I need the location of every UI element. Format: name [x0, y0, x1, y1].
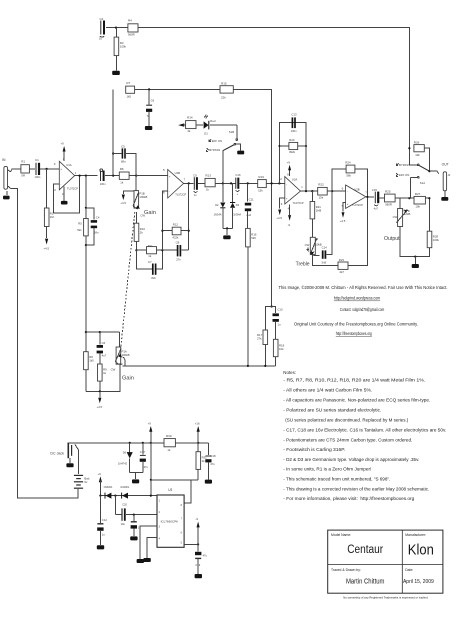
- svg-text:560R: 560R: [385, 203, 392, 207]
- ground at U1A pin4: [61, 187, 68, 205]
- svg-text:R20: R20: [289, 138, 295, 142]
- svg-text:http://freestompboxes.org: http://freestompboxes.org: [336, 331, 372, 336]
- svg-text:0R: 0R: [21, 173, 25, 177]
- svg-text:R4: R4: [128, 19, 132, 23]
- svg-text:+: +: [286, 197, 288, 201]
- svg-text:C13: C13: [291, 112, 297, 116]
- svg-text:392k: 392k: [289, 150, 296, 154]
- svg-text:OUT: OUT: [442, 162, 449, 166]
- svg-text:1N34A: 1N34A: [233, 212, 241, 216]
- svg-text:56k: 56k: [346, 174, 351, 178]
- title block: [328, 530, 443, 593]
- svg-text:+4.5: +4.5: [97, 405, 103, 409]
- svg-text:100n: 100n: [35, 175, 41, 179]
- diode D4 1N4001: [103, 485, 113, 498]
- capacitor C1: [35, 158, 41, 179]
- svg-text:+9: +9: [98, 472, 102, 476]
- wire: U2B output: [366, 196, 374, 198]
- svg-text:68n: 68n: [94, 231, 99, 235]
- capacitor C6b electrolytic: [97, 332, 107, 364]
- wire: gain network top: [86, 331, 120, 333]
- pot P1A (gain, lower gang): [111, 332, 130, 371]
- capacitor C16 tantalum: [235, 173, 241, 196]
- svg-text:C12: C12: [102, 518, 108, 522]
- capacitor C4: [86, 208, 100, 245]
- battery BT1: [74, 444, 90, 488]
- svg-text:TL072CP: TL072CP: [67, 187, 78, 191]
- wire: R15 to right loop down to C10: [233, 89, 271, 306]
- svg-text:C9: C9: [193, 174, 197, 178]
- svg-text:Treble: Treble: [296, 262, 310, 268]
- resistor R27: [409, 192, 430, 208]
- svg-text:1u: 1u: [277, 322, 281, 326]
- svg-text:R6: R6: [120, 167, 124, 171]
- svg-text:-: -: [169, 189, 170, 193]
- svg-text:47u: 47u: [144, 465, 149, 469]
- resistor R20: [289, 138, 298, 154]
- node: R15/C10 column crossing: [271, 182, 273, 184]
- svg-text:Output: Output: [384, 236, 400, 242]
- svg-text:27n: 27n: [176, 258, 181, 262]
- svg-text:100n: 100n: [291, 129, 297, 133]
- svg-text:+9: +9: [287, 161, 291, 165]
- resistor R7: [126, 81, 220, 98]
- node: R10/R11/C7: [135, 249, 137, 251]
- capacitor C3: [100, 169, 106, 186]
- wire: down to gain pot network: [85, 245, 87, 332]
- resistor R22: [318, 183, 346, 200]
- node: R5/C4 top: [85, 207, 87, 209]
- svg-text:DC Jack: DC Jack: [50, 452, 64, 456]
- wire: U3 pin3 stub: [140, 526, 157, 559]
- ground below DC jack: [66, 463, 73, 467]
- wire: U3 pin5 output: [184, 543, 198, 545]
- ground below output pot loop: [412, 264, 419, 268]
- svg-text:+4.5: +4.5: [340, 219, 346, 223]
- svg-text:U1B: U1B: [175, 171, 181, 175]
- capacitor C6: [146, 89, 155, 125]
- svg-text:- This drawing is a corrected: - This drawing is a corrected revision o…: [283, 486, 429, 491]
- svg-text:C6: C6: [102, 341, 106, 345]
- svg-text:R12: R12: [173, 223, 179, 227]
- ground below C18: [205, 480, 212, 484]
- svg-text:C16: C16: [235, 173, 241, 177]
- resistor R26: [414, 141, 430, 172]
- svg-text:10u: 10u: [121, 522, 126, 526]
- svg-text:C7: C7: [148, 260, 152, 264]
- wire: bias rail: [123, 365, 276, 367]
- wire: sleeve down left side to battery row: [10, 188, 78, 498]
- pot P1B (gain, upper gang): [133, 176, 147, 218]
- svg-text:C10: C10: [277, 307, 283, 311]
- svg-text:-9: -9: [195, 517, 198, 521]
- op-amp U2B: [342, 185, 368, 208]
- resistor R30: [164, 434, 208, 452]
- node: C10/R17 split: [271, 305, 273, 307]
- svg-text:TL072CP: TL072CP: [352, 203, 363, 207]
- svg-text:+4.5: +4.5: [120, 201, 126, 205]
- svg-text:IN: IN: [2, 158, 6, 162]
- svg-text:C14: C14: [322, 246, 328, 250]
- svg-text:R23: R23: [339, 258, 345, 262]
- svg-text:C20: C20: [122, 503, 127, 507]
- wire: C16 to R19: [239, 182, 257, 184]
- op-amp U2A: [280, 172, 304, 210]
- resistor R3: [114, 28, 126, 71]
- ground below output jack: [441, 197, 448, 201]
- svg-text:4u7: 4u7: [374, 206, 379, 210]
- wire: gang dashed link P1B to P1A: [121, 212, 135, 347]
- wire: C5 branch vertical: [112, 89, 114, 175]
- resistor R14: [186, 116, 203, 134]
- svg-text:R24: R24: [345, 160, 351, 164]
- wire: diode chain row: [100, 495, 157, 497]
- svg-text:No ownership of any Registered: No ownership of any Registered Trademark…: [343, 595, 428, 599]
- svg-text:C1: C1: [35, 158, 39, 162]
- capacitor C11: [245, 183, 254, 228]
- svg-text:BYPASS: BYPASS: [209, 148, 220, 152]
- wire: diode pair merge: [223, 227, 233, 229]
- svg-text:C5: C5: [121, 145, 125, 149]
- wire: C15 to R25: [379, 197, 384, 199]
- node: C11 tap: [247, 182, 249, 184]
- svg-text:10k: 10k: [279, 347, 284, 351]
- svg-text:- Potentiometers are CTS 24mm: - Potentiometers are CTS 24mm Carbon typ…: [283, 437, 412, 442]
- svg-text:R1: R1: [21, 160, 25, 164]
- node: junction C2/R4/R3: [115, 27, 117, 29]
- resistor R4: [128, 19, 138, 37]
- svg-text:Martin Chittum: Martin Chittum: [346, 579, 385, 586]
- svg-text:+4.5: +4.5: [276, 216, 282, 220]
- svg-text:1N34A: 1N34A: [214, 212, 222, 216]
- svg-text:+4.5: +4.5: [44, 247, 50, 251]
- node: R21 tap: [311, 190, 313, 192]
- capacitor C13: [291, 112, 297, 132]
- svg-text:10k: 10k: [415, 153, 420, 157]
- ground below pin3 line: [137, 559, 144, 563]
- wire: P3 bottom loop to U2B output: [313, 255, 338, 266]
- svg-text:D6: D6: [123, 450, 127, 454]
- node: C6 tap: [148, 88, 150, 90]
- resistor R17: [257, 307, 272, 366]
- node: output to gain network: [85, 175, 87, 177]
- svg-text:Red: Red: [210, 119, 216, 123]
- wire: D6/C17 to ground: [130, 471, 143, 473]
- svg-text:68n: 68n: [121, 160, 126, 164]
- pot P3 treble: [305, 237, 322, 256]
- svg-text:Model Name:: Model Name:: [331, 533, 351, 537]
- svg-text:Original Unit Courtesy of the: Original Unit Courtesy of the Freestompb…: [294, 322, 418, 327]
- svg-text:+9: +9: [148, 422, 152, 426]
- svg-text:R27: R27: [415, 192, 421, 196]
- svg-text:D2: D2: [215, 203, 219, 207]
- node: C5 branch: [112, 152, 114, 154]
- net +4.5 arrow at U2A pin3: [276, 198, 284, 220]
- resistor R25: [385, 190, 410, 207]
- svg-text:1k5: 1k5: [126, 94, 131, 98]
- svg-text:100k: 100k: [433, 238, 440, 242]
- node: U1B output: [188, 182, 190, 184]
- svg-text:Klon: Klon: [408, 543, 434, 559]
- svg-text:1M8: 1M8: [316, 209, 322, 213]
- svg-text:27k: 27k: [257, 337, 262, 341]
- svg-text:- Footswitch is Carling 316P.: - Footswitch is Carling 316P.: [283, 447, 345, 452]
- diode D2 1N34A: [214, 183, 226, 228]
- wire: C1 to U1A pin3: [40, 168, 59, 170]
- svg-text:1N4742: 1N4742: [118, 462, 128, 466]
- svg-text:http://solgrind.wordpress.com: http://solgrind.wordpress.com: [334, 296, 381, 301]
- svg-text:1N4001: 1N4001: [103, 485, 113, 489]
- svg-text:-: -: [60, 183, 61, 187]
- ground below C12: [97, 545, 104, 549]
- resistor R12: [161, 223, 190, 240]
- op-amp U1B: [163, 168, 187, 198]
- svg-text:EFF ON: EFF ON: [212, 139, 222, 143]
- wire: C8 up to U1B output node: [188, 231, 190, 251]
- wire: R12 feedback loop: [162, 191, 167, 250]
- svg-text:U2A: U2A: [292, 177, 298, 181]
- svg-text:-: -: [286, 182, 287, 186]
- wire: U3 pin4 to ground: [147, 537, 157, 558]
- svg-text:C6: C6: [151, 98, 155, 102]
- node: C21 tap: [133, 514, 135, 516]
- svg-text:100k: 100k: [120, 45, 127, 49]
- node: +16 net: [197, 442, 199, 444]
- zener D6 1N4742: [118, 443, 133, 473]
- wire: down to R5/C4: [85, 176, 87, 208]
- svg-text:560R: 560R: [128, 32, 135, 36]
- svg-text:+: +: [60, 167, 62, 171]
- node: P4/R27/S1A: [408, 197, 410, 199]
- resistor R31: [196, 443, 207, 480]
- svg-text:- Polarized are SU series stan: - Polarized are SU series standard elect…: [283, 408, 381, 413]
- svg-text:1M: 1M: [50, 215, 55, 219]
- node: output/R20 loop: [305, 190, 307, 192]
- node: C5 branch left: [112, 175, 114, 177]
- resistor R24: [345, 160, 367, 197]
- op-amp U1A: [54, 157, 78, 196]
- svg-text:- In some units, R1 is a Zero: - In some units, R1 is a Zero Ohm Jumper…: [283, 467, 371, 472]
- node: R6/C5/P1B: [135, 175, 137, 177]
- capacitor C10: [272, 307, 283, 340]
- capacitor C18: [205, 443, 216, 480]
- resistor R19: [258, 175, 285, 193]
- DC jack J3: [67, 443, 75, 463]
- capacitor C5: [113, 145, 136, 176]
- svg-text:S1A: S1A: [420, 181, 425, 185]
- svg-text:- R5, R7, R8, R10, R12, R18, R: - R5, R7, R8, R10, R12, R18, R20 are 1/4…: [283, 378, 425, 383]
- svg-text:Gain: Gain: [122, 376, 134, 382]
- svg-text:R5: R5: [78, 221, 82, 225]
- svg-text:Gain: Gain: [144, 210, 156, 216]
- ground below D2/D3: [223, 235, 230, 239]
- net +9 arrow above U1A pin8: [61, 142, 66, 161]
- wire: R1 to C1: [29, 168, 35, 170]
- wire: top rail from C2 to bypass switch column: [106, 28, 409, 165]
- node: D2 tap: [222, 182, 224, 184]
- svg-text:15k: 15k: [258, 188, 263, 192]
- svg-text:Manufacturer:: Manufacturer:: [405, 533, 426, 537]
- net +9 arrow on rail: [148, 422, 153, 443]
- svg-text:R7: R7: [126, 81, 130, 85]
- svg-text:Centaur: Centaur: [347, 544, 383, 556]
- svg-text:S1B: S1B: [229, 130, 234, 134]
- svg-text:R22: R22: [318, 183, 324, 187]
- svg-text:47u: 47u: [203, 553, 208, 557]
- capacitor C14: [321, 191, 332, 264]
- svg-text:C11: C11: [249, 197, 254, 201]
- svg-text:CW: CW: [111, 367, 116, 371]
- svg-text:15k: 15k: [319, 196, 324, 200]
- svg-text:U3: U3: [168, 488, 172, 492]
- svg-text:Notes:: Notes:: [283, 370, 296, 375]
- node: output/R24/R23: [366, 196, 368, 198]
- resistor R18: [273, 339, 284, 366]
- notes block: [283, 370, 446, 501]
- ground below C21: [130, 536, 137, 540]
- switch S1B footswitch: [207, 125, 245, 183]
- svg-text:100kB: 100kB: [139, 195, 147, 199]
- capacitor C19: [195, 544, 207, 573]
- net -9 arrow at U2A pin4: [288, 204, 292, 227]
- svg-text:- All others are 1/4 watt Carb: - All others are 1/4 watt Carbon Film 5%…: [283, 387, 372, 392]
- svg-text:April 15, 2009: April 15, 2009: [403, 579, 434, 585]
- svg-text:- D2 & D3 are Germanium type.: - D2 & D3 are Germanium type. Voltage dr…: [283, 457, 419, 462]
- svg-text:3n9: 3n9: [321, 260, 326, 264]
- switch S1A footswitch: [396, 163, 438, 198]
- svg-text:C8: C8: [176, 241, 180, 245]
- wire: C9 to R13: [198, 182, 205, 184]
- svg-text:(SU series polarized are disco: (SU series polarized are discontinued. R…: [285, 417, 409, 422]
- capacitor C8: [162, 241, 188, 262]
- svg-text:- This schematic traced from u: - This schematic traced from unit number…: [283, 477, 390, 482]
- ground below C6: [145, 126, 152, 130]
- svg-text:5k6: 5k6: [251, 236, 256, 240]
- svg-text:47u: 47u: [210, 462, 215, 466]
- wire: charge pump V+ loop over U3: [150, 443, 152, 496]
- svg-text:Contact: solgrind78@gmail.com: Contact: solgrind78@gmail.com: [340, 307, 385, 312]
- svg-text:C15: C15: [372, 188, 378, 192]
- capacitor C17: [140, 443, 149, 473]
- svg-text:D3: D3: [236, 203, 240, 207]
- svg-text:4k7: 4k7: [339, 270, 344, 274]
- svg-text:10k: 10k: [415, 205, 420, 209]
- svg-text:-: -: [347, 190, 348, 194]
- wire: U2A output: [301, 190, 318, 192]
- svg-text:ICL7660CPA: ICL7660CPA: [161, 519, 178, 523]
- capacitor C20 pump cap: [115, 496, 157, 527]
- net +4.5 arrow at U2B pin5: [340, 203, 346, 224]
- resistor R23: [338, 197, 367, 274]
- capacitor C2: [99, 17, 104, 41]
- capacitor C21: [131, 515, 142, 537]
- svg-text:C17: C17: [140, 450, 146, 454]
- net +4.5 arrow at P1B top terminal: [120, 191, 134, 205]
- resistor R11: [136, 244, 162, 258]
- resistor R6: [119, 167, 136, 185]
- ground below R3: [112, 71, 120, 75]
- ground below C19: [195, 574, 202, 578]
- svg-text:7n: 7n: [147, 114, 151, 118]
- node: R24/C14 column: [331, 190, 333, 192]
- svg-text:U1A: U1A: [66, 163, 72, 167]
- net +9 arrow at R14: [178, 123, 185, 126]
- wire: input tip to R1 with contact hook: [11, 169, 21, 172]
- net +9 arrow above U2A: [287, 161, 291, 176]
- svg-text:P3: P3: [315, 237, 319, 241]
- svg-text:D1: D1: [204, 131, 208, 135]
- resistor R16: [246, 228, 257, 366]
- capacitor C15: [372, 188, 379, 211]
- svg-text:R26: R26: [414, 141, 420, 145]
- svg-text:R14: R14: [187, 116, 193, 120]
- diode D5 1N4001: [120, 485, 130, 498]
- svg-text:-9: -9: [288, 223, 291, 227]
- resistor R10: [134, 212, 145, 250]
- svg-text:+16: +16: [195, 422, 200, 426]
- diode D3 1N34A: [230, 183, 241, 228]
- svg-text:- For more information, please: - For more information, please visit: ht…: [283, 496, 415, 501]
- svg-text:422k: 422k: [172, 236, 179, 240]
- node: R20 loop left: [278, 182, 280, 184]
- resistor R8: [84, 332, 95, 391]
- net +4.5 arrow below R2: [44, 239, 50, 251]
- svg-text:82n: 82n: [151, 276, 156, 280]
- svg-text:+9: +9: [61, 142, 65, 146]
- wire: +9 rail from DC jack: [75, 442, 164, 444]
- svg-text:4u7: 4u7: [102, 354, 107, 358]
- svg-text:U2B: U2B: [354, 187, 360, 191]
- svg-text:EFF ON: EFF ON: [399, 173, 409, 177]
- svg-text:CW: CW: [305, 243, 310, 247]
- wire: R24 feedback loop: [332, 169, 346, 191]
- input jack J1: [4, 166, 11, 195]
- svg-text:5k1: 5k1: [77, 228, 82, 232]
- ground below input jack: [3, 196, 10, 200]
- LED D1 red: [204, 115, 237, 136]
- wire: R20/C13 feedback loop: [279, 123, 306, 192]
- resistor R9: [98, 364, 108, 391]
- svg-text:Traced & Drawn by:: Traced & Drawn by:: [331, 568, 361, 572]
- resistor R21: [310, 191, 321, 237]
- svg-text:R30: R30: [166, 434, 172, 438]
- wire: P4 bottom loop with R28: [400, 227, 429, 257]
- svg-text:This Image, ©2008-2009 M. Chit: This Image, ©2008-2009 M. Chittum - All …: [279, 285, 448, 290]
- svg-text:R19: R19: [258, 175, 264, 179]
- node: R2 tap: [46, 168, 48, 170]
- wire: C3 to R6 node: [105, 175, 120, 177]
- svg-text:1k5: 1k5: [89, 358, 94, 362]
- copyright notice block: [279, 285, 448, 336]
- svg-text:R15: R15: [221, 81, 227, 85]
- svg-text:R25: R25: [385, 190, 391, 194]
- svg-text:22k: 22k: [221, 95, 226, 99]
- svg-text:C2: C2: [100, 17, 104, 21]
- svg-text:2u2: 2u2: [246, 213, 251, 217]
- pot P4 output: [393, 198, 411, 226]
- resistor R13: [205, 174, 236, 192]
- wire: U1A feedback pin2 loop: [53, 176, 79, 213]
- wire: gain network bottom: [86, 364, 120, 391]
- node: output ground: [414, 256, 416, 258]
- net -9 arrow at U3 pin5: [195, 517, 199, 544]
- net +16 arrow: [195, 422, 200, 443]
- svg-text:10kB: 10kB: [404, 212, 411, 216]
- net +4.5 arrow below gain network: [97, 391, 103, 409]
- svg-text:CW: CW: [393, 215, 398, 219]
- svg-text:+: +: [169, 175, 171, 179]
- resistor R15: [220, 81, 233, 99]
